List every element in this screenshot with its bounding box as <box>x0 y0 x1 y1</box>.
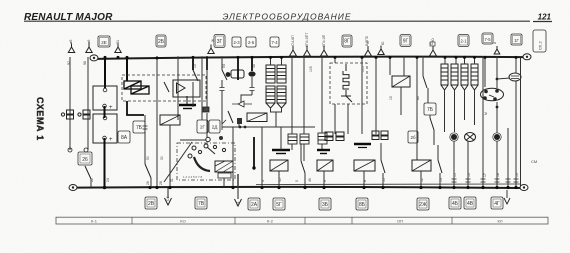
svg-text:Ю: Ю <box>381 41 385 45</box>
svg-text:СЧ-6П: СЧ-6П <box>291 35 295 46</box>
svg-text:2б: 2б <box>410 135 416 140</box>
lamp dot E2 <box>451 134 457 140</box>
diode D1 <box>238 101 244 107</box>
svg-text:4Г: 4Г <box>494 201 500 207</box>
ground GND1 <box>179 96 196 109</box>
switch S8 <box>423 76 427 88</box>
arrow A7 <box>321 46 328 56</box>
svg-text:ОП: ОП <box>397 219 403 224</box>
inner frames bottom label boxes <box>147 199 501 208</box>
wire W362 <box>361 56 363 134</box>
svg-text:C1: C1 <box>236 201 240 206</box>
tiny rotated wire labels top <box>67 33 497 65</box>
svg-text:3Б: 3Б <box>322 202 329 208</box>
label box 7-4 <box>270 37 279 47</box>
svg-text:6: 6 <box>323 180 327 182</box>
svg-text:8Г: 8Г <box>344 39 350 45</box>
relay K1 coil <box>124 81 149 94</box>
wires above glow plugs <box>445 56 475 64</box>
boxed ref labels top row <box>98 30 546 52</box>
wire secondary bottom line <box>256 183 520 186</box>
arrow A9 <box>378 46 384 55</box>
wire W88 <box>87 57 89 150</box>
wires above resistors <box>270 56 272 65</box>
switch S2 <box>145 164 151 178</box>
label box 2-3 <box>232 37 241 47</box>
contact T <box>341 90 352 102</box>
resistor R1 ladder <box>266 65 275 83</box>
relay K7 <box>392 76 410 87</box>
svg-text:К-1: К-1 <box>91 219 98 224</box>
arrow A3 <box>115 44 121 53</box>
lamp dark E1 <box>248 71 255 76</box>
switch S7 <box>381 160 385 173</box>
svg-text:1Г: 1Г <box>514 38 519 43</box>
twin label boxes 2Г 2Д <box>197 120 220 133</box>
svg-text:8: 8 <box>363 180 367 182</box>
label box 7Б <box>133 121 145 133</box>
svg-text:СМ: СМ <box>531 159 537 164</box>
glow plug R5 <box>441 64 448 90</box>
control unit U1 <box>173 80 200 97</box>
lamp dot E4 <box>494 134 500 140</box>
component small box <box>203 107 209 112</box>
label box 8Г <box>342 35 352 47</box>
label box b6 <box>356 198 368 210</box>
wire W348 below flasher <box>347 104 349 134</box>
svg-text:8-0П5: 8-0П5 <box>365 36 369 46</box>
horn H1 <box>226 70 244 78</box>
svg-text:50: 50 <box>146 156 150 160</box>
svg-text:8: 8 <box>493 42 497 44</box>
wire W202 <box>201 56 203 120</box>
svg-text:15: 15 <box>453 173 457 177</box>
wire W207 <box>206 56 208 70</box>
svg-text:СХЕМА 1: СХЕМА 1 <box>35 97 45 141</box>
label box 9Г <box>400 35 411 47</box>
contact mark <box>222 120 226 130</box>
label box b2 <box>195 197 207 209</box>
wire horizontal lower left <box>180 139 206 141</box>
svg-text:2Д: 2Д <box>212 125 218 130</box>
svg-text:5: 5 <box>295 180 299 182</box>
relay K6 <box>354 160 375 171</box>
connector pair mid2 <box>372 131 388 140</box>
svg-text:Ю: Ю <box>431 38 435 42</box>
gauge small ellipse <box>509 73 521 81</box>
wire battery link <box>104 106 106 118</box>
wire W296 from bus <box>291 56 293 134</box>
svg-text:4Б: 4Б <box>452 201 459 207</box>
resistor R2 ladder <box>277 65 286 83</box>
wire W160 <box>156 56 158 187</box>
svg-text:19: 19 <box>515 173 519 177</box>
svg-text:12: 12 <box>420 178 424 182</box>
connector pair on W88 <box>78 110 90 119</box>
svg-text:КО: КО <box>180 219 185 224</box>
relay K3 hatched <box>215 161 233 172</box>
svg-text:14: 14 <box>439 178 443 182</box>
svg-text:2Г: 2Г <box>200 125 206 130</box>
wire W178 <box>177 56 179 120</box>
wire battery to bottom bus thick <box>104 138 106 187</box>
svg-text:M: M <box>484 112 488 115</box>
wire K3 to bus <box>223 178 225 187</box>
component dark box <box>237 118 242 124</box>
label box b1 <box>145 197 157 209</box>
svg-text:26: 26 <box>146 181 150 185</box>
wire W520 <box>520 58 522 188</box>
svg-text:2Е: 2Е <box>101 40 107 45</box>
wire W485 <box>484 56 486 87</box>
svg-text:4: 4 <box>261 180 265 182</box>
wires lamps to bus <box>454 56 508 187</box>
svg-text:7-5: 7-5 <box>484 37 491 42</box>
svg-text:+: + <box>109 137 113 143</box>
wire W70 <box>69 57 71 150</box>
label box 3Г <box>214 35 225 48</box>
coil L1 <box>343 64 349 89</box>
connector on W252 <box>250 88 255 91</box>
label box 8А <box>118 131 130 143</box>
arrow A6 <box>304 46 311 56</box>
wire gauge link <box>497 78 510 79</box>
svg-text:22: 22 <box>90 178 94 182</box>
svg-text:105: 105 <box>361 66 365 72</box>
svg-text:ЭЛЕКТРООБОРУДОВАНИЕ: ЭЛЕКТРООБОРУДОВАНИЕ <box>222 12 351 22</box>
svg-text:ж5: ж5 <box>69 40 73 44</box>
wire W404 <box>403 56 405 76</box>
relay K5 <box>317 160 333 171</box>
wire W497 <box>496 56 498 88</box>
svg-text:26: 26 <box>82 157 88 163</box>
wire resistor join <box>271 108 282 127</box>
resistor R4 ladder <box>277 86 286 108</box>
switch S3 <box>193 70 198 81</box>
wire K9 down <box>169 125 171 187</box>
label box 2-1 <box>458 35 469 47</box>
heater element bars <box>272 149 290 151</box>
svg-text:2-1: 2-1 <box>460 39 467 44</box>
wire thick to relay unit <box>126 56 128 81</box>
tiny rotated labels mid <box>146 41 488 160</box>
small box under <box>218 173 231 178</box>
wire W390 <box>389 56 391 75</box>
svg-text:3Г: 3Г <box>217 39 223 45</box>
svg-text:58: 58 <box>252 64 256 68</box>
top bus + terminal <box>90 55 98 61</box>
down arrow DA2 <box>235 188 242 206</box>
resistor R3 ladder <box>266 86 275 108</box>
svg-text:54: 54 <box>222 64 226 68</box>
arrow A10 <box>430 46 437 56</box>
heater element bars 2 <box>317 149 330 151</box>
connector pair mid <box>325 132 344 141</box>
wire W417 <box>416 56 418 160</box>
relay K9 <box>160 115 180 125</box>
inner frames of top label boxes <box>100 35 521 47</box>
svg-text:7-4: 7-4 <box>271 40 278 45</box>
label box b10 <box>491 197 503 209</box>
svg-text:49: 49 <box>308 178 312 182</box>
header rule <box>24 20 530 22</box>
wire bottom bus <box>77 187 520 188</box>
svg-text:C6: C6 <box>166 196 170 201</box>
svg-text:2-3: 2-3 <box>233 40 240 45</box>
svg-text:9Г: 9Г <box>403 39 409 45</box>
distributor M1 <box>481 88 504 100</box>
switch S4 <box>222 70 227 80</box>
label box b9 <box>464 197 476 209</box>
svg-text:5Г: 5Г <box>276 202 282 208</box>
battery G1 <box>93 86 117 111</box>
svg-text:2Ж: 2Ж <box>419 202 427 208</box>
switch S6 <box>301 161 305 173</box>
label box 26 <box>78 152 92 165</box>
svg-text:ж6: ж6 <box>87 40 91 44</box>
wire from relay unit down thick <box>127 101 144 115</box>
wire diagonal lever <box>164 142 192 182</box>
arrow A2 <box>86 44 92 53</box>
switch S10 <box>438 160 442 173</box>
node circle <box>206 137 210 141</box>
wire W147 <box>144 115 146 164</box>
wire top bus <box>98 57 523 59</box>
label box СХЕМА 2 tall <box>533 30 546 52</box>
svg-text:55: 55 <box>382 178 386 182</box>
lamp X E3 <box>465 133 476 142</box>
wires below glow plugs <box>445 90 475 132</box>
arrow A5 <box>290 46 297 56</box>
label box 2б mid <box>408 131 418 143</box>
ignition switch assembly dashed box <box>177 143 235 180</box>
svg-text:1 2 3 4 5 6 7 8: 1 2 3 4 5 6 7 8 <box>183 175 203 179</box>
wire jog <box>241 95 252 103</box>
wire W335 <box>334 56 336 63</box>
down arrow DA3 <box>504 190 510 204</box>
svg-text:СХ.2: СХ.2 <box>538 41 543 50</box>
node circle W88 end <box>84 148 88 152</box>
svg-text:31: 31 <box>170 178 174 182</box>
svg-text:КЛ: КЛ <box>498 219 503 224</box>
label box 2-6 <box>246 37 256 47</box>
svg-text:121: 121 <box>538 13 552 22</box>
flasher unit dashed box <box>330 63 367 104</box>
svg-text:86: 86 <box>416 96 420 100</box>
wire W222 <box>221 56 223 70</box>
svg-text:2-6: 2-6 <box>248 40 255 45</box>
battery G2 <box>93 114 117 143</box>
wire W262 <box>261 127 263 188</box>
svg-text:0П4-0П: 0П4-0П <box>322 34 326 47</box>
wire W118 <box>117 56 119 58</box>
label box b7 <box>417 198 429 210</box>
resistor ladder small <box>288 133 327 144</box>
svg-text:98: 98 <box>83 61 87 65</box>
legend bar <box>56 217 548 224</box>
label box 7Б2 <box>424 103 436 115</box>
svg-text:105: 105 <box>309 66 313 72</box>
connector ticks right <box>452 179 519 182</box>
connector pair on W70 <box>61 110 73 119</box>
label box b4 <box>273 198 285 210</box>
svg-text:2А: 2А <box>251 202 258 208</box>
relay K2 <box>247 113 267 122</box>
relay K4 <box>270 160 288 171</box>
switch S9 <box>430 118 434 130</box>
tiny square <box>430 42 435 46</box>
bottom bus + terminals <box>69 185 77 191</box>
arrow A11 <box>494 46 500 54</box>
node circle W70 end <box>68 148 72 152</box>
svg-text:15: 15 <box>389 96 393 100</box>
svg-text:15: 15 <box>193 64 197 68</box>
label box b3 <box>248 198 260 210</box>
down arrow DA1 <box>165 188 172 205</box>
svg-text:28: 28 <box>159 181 163 185</box>
svg-text:8А: 8А <box>121 135 128 141</box>
label box 2Б <box>156 35 166 47</box>
relay unit dashed enclosure <box>122 75 206 101</box>
svg-text:6П4-0П7: 6П4-0П7 <box>305 33 309 47</box>
svg-text:2Б: 2Б <box>158 39 165 45</box>
wire W310 <box>303 56 305 134</box>
wire W516 <box>515 56 517 73</box>
switch S1 <box>85 166 91 179</box>
wire horizontal mid <box>222 126 315 128</box>
arrow A4 <box>208 45 214 54</box>
wire W193 <box>192 56 194 70</box>
glow plug R6 <box>451 64 458 90</box>
svg-text:18: 18 <box>496 173 500 177</box>
tiny rotated wire labels near bottom <box>90 173 519 185</box>
svg-text:7В: 7В <box>198 201 205 207</box>
svg-text:2В: 2В <box>148 201 155 207</box>
svg-text:81: 81 <box>116 40 120 44</box>
svg-text:16: 16 <box>467 173 471 177</box>
svg-text:+: + <box>109 105 113 111</box>
connector tick W147 <box>143 126 148 129</box>
label box b5 <box>319 198 331 210</box>
svg-text:45: 45 <box>278 178 282 182</box>
arrow A8 <box>365 46 372 56</box>
wire switch S2 to bus <box>150 178 152 187</box>
glow plug R7 <box>461 64 468 90</box>
glow plug R8 <box>471 64 478 90</box>
label box b8 <box>449 197 461 209</box>
ground bar mid <box>354 144 371 148</box>
label box 2E <box>98 36 110 47</box>
svg-text:К-2: К-2 <box>267 219 274 224</box>
svg-text:7Б: 7Б <box>136 125 143 131</box>
relay K8 <box>412 160 431 171</box>
label box 1Г <box>511 34 522 45</box>
svg-text:4В: 4В <box>467 201 474 207</box>
connector on W222 <box>220 88 225 91</box>
svg-text:24: 24 <box>106 178 110 182</box>
svg-text:7Б: 7Б <box>427 107 434 113</box>
svg-text:8Б: 8Б <box>359 202 366 208</box>
svg-text:30: 30 <box>160 156 164 160</box>
svg-text:17: 17 <box>483 173 487 177</box>
terminal right of top bus <box>523 54 531 60</box>
contact K1 <box>164 82 169 92</box>
label box 7-5 <box>482 33 493 44</box>
wire thick battery feed <box>104 56 106 88</box>
switch S5 <box>228 111 233 123</box>
switch rotary contacts <box>188 144 226 171</box>
arrow A1 <box>68 44 74 53</box>
wire W322 <box>321 56 323 133</box>
wire W252 <box>251 56 253 71</box>
